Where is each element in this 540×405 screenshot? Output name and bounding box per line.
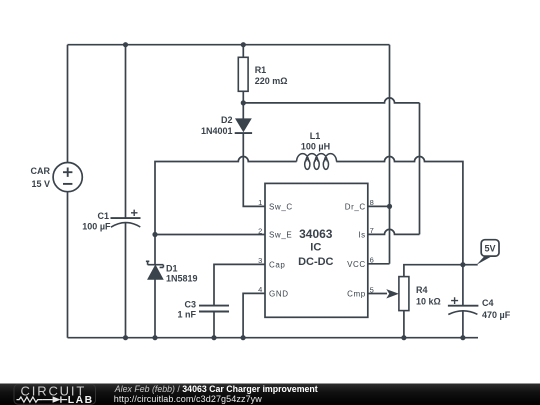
wire pin2 Sw_E [155,234,265,236]
wire Is sense line y=103 with hop [243,98,419,103]
node dot top R1 [241,42,246,47]
label L1 100uH [301,131,330,151]
IC pin labels right [345,202,366,298]
node dot R1 bottom [241,100,246,105]
IC center labels [298,227,333,268]
node dot gnd C4 [460,335,465,340]
wire pin4 GND down [243,293,265,337]
resistor R1 220mOhm [238,45,248,103]
voltage source V1 CAR 15V [53,163,82,192]
svg-text:C4: C4 [482,298,494,308]
svg-text:15 V: 15 V [31,179,50,189]
capacitor C3 1nF [199,306,229,338]
svg-text:R4: R4 [416,285,428,295]
svg-text:Dr_C: Dr_C [345,202,366,211]
capacitor C4 470uF [448,265,479,338]
svg-text:IC: IC [310,242,321,254]
node dot gnd pin4 [241,335,246,340]
node dot pin8 [387,204,392,209]
svg-text:2: 2 [258,226,262,235]
svg-text:Sw_C: Sw_C [269,202,293,211]
label CAR 15V [31,166,51,189]
label R4 10k [416,285,441,307]
svg-text:4: 4 [258,285,262,294]
inductor L1 100uH [297,154,337,170]
svg-text:220 mΩ: 220 mΩ [255,76,288,86]
svg-text:Alex Feb (febb) / 34063 Car Ch: Alex Feb (febb) / 34063 Car Charger impr… [114,384,318,394]
svg-text:DC-DC: DC-DC [298,256,333,268]
svg-text:C3: C3 [184,300,196,310]
svg-text:CAR: CAR [31,166,51,176]
node dot gnd C1 [123,335,128,340]
node dot gnd R4 [401,335,406,340]
svg-text:R1: R1 [255,65,267,75]
node dot gnd D1 [152,335,157,340]
footer credit text [114,384,318,404]
wire pin6 VCC [368,263,390,265]
svg-text:1 nF: 1 nF [177,309,196,319]
op-amp U1 34063 IC box [265,183,368,317]
wire vertical Is branch [419,103,421,235]
IC pin labels left [269,202,293,298]
node dot 5V [460,262,465,267]
svg-text:C1: C1 [97,211,109,221]
label C4 470uF [482,298,511,320]
wire pin8 Dr_C [368,205,390,207]
wire vertical VIN to VCC [389,45,391,264]
label D1 1N5819 [166,263,198,283]
label C3 1nF [177,300,196,320]
wire pin7 Is with hop [368,229,420,234]
capacitor C1 [111,210,141,228]
resistor R4 10k [399,265,463,338]
label C1 100uF [82,211,111,232]
svg-text:LAB: LAB [68,395,94,405]
wire ground rail [68,337,479,339]
svg-text:Cap: Cap [269,260,285,269]
svg-text:D1: D1 [166,263,178,273]
svg-text:470 µF: 470 µF [482,310,511,320]
footer black bar [0,384,540,405]
wire C1 branch [125,45,127,338]
svg-text:L1: L1 [310,131,321,141]
node dot gnd C3 [211,335,216,340]
svg-text:1N5819: 1N5819 [166,274,198,284]
wire pin5 Cmp with wiper arrow [368,293,387,295]
diode D2 1N4001 [235,103,265,206]
wire left vertical to source [67,45,69,338]
wire L1 output to 5V node with hops [336,157,463,265]
CircuitLab logo [14,383,96,405]
node dot top C1 [123,42,128,47]
node dot switch node [152,232,157,237]
svg-text:Is: Is [358,230,365,239]
svg-text:5V: 5V [484,243,495,253]
svg-text:Sw_E: Sw_E [269,231,292,240]
label D2 1N4001 [201,115,233,136]
node flag 5V [463,240,499,265]
svg-text:D2: D2 [221,115,233,125]
svg-text:3: 3 [258,256,262,265]
svg-text:100 µF: 100 µF [82,222,111,232]
svg-text:http://circuitlab.com/c3d27g54: http://circuitlab.com/c3d27g54zz7yw [114,394,262,404]
svg-text:34063: 34063 [299,227,333,241]
svg-text:1N4001: 1N4001 [201,126,233,136]
pin numbers [258,198,374,294]
diode D1 1N5819 schottky [146,235,164,338]
svg-text:1: 1 [258,198,262,207]
wire pin3 to C3 [214,264,265,305]
svg-text:10 kΩ: 10 kΩ [416,297,441,307]
label R1 220mOhm [255,65,288,86]
svg-text:VCC: VCC [347,260,366,269]
wire top rail VIN [68,44,390,46]
wire switch node to L1 with hop over D2 branch [155,157,297,235]
svg-text:Cmp: Cmp [347,290,366,299]
svg-text:GND: GND [269,289,289,298]
svg-text:100 µH: 100 µH [301,141,330,151]
